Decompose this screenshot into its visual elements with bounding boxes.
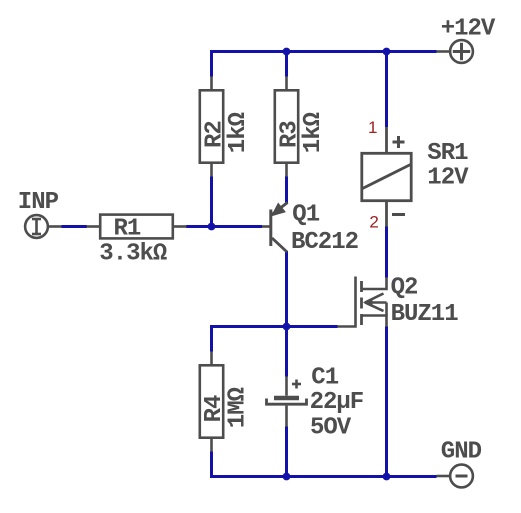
transistor Q1: [262, 203, 288, 253]
relay minus mark: [392, 213, 405, 216]
wire Q2 source down: [385, 327, 388, 477]
ground terminal GND: [437, 465, 473, 488]
svg-text:Q1: Q1: [292, 202, 319, 229]
svg-text:1kΩ: 1kΩ: [225, 112, 252, 153]
svg-text:BUZ11: BUZ11: [391, 301, 459, 328]
svg-text:1MΩ: 1MΩ: [225, 387, 252, 428]
resistor R4: [200, 352, 223, 452]
svg-text:R1: R1: [114, 216, 141, 243]
svg-text:3.3kΩ: 3.3kΩ: [99, 241, 167, 268]
wire relay top: [385, 52, 388, 128]
resistor R1: [87, 215, 187, 239]
wire C1 top: [285, 327, 288, 377]
wire R4 top drop: [210, 325, 213, 352]
wire R3 top: [285, 52, 288, 77]
wire R1 to Q1 base: [186, 225, 262, 228]
terminal INP: [25, 215, 61, 238]
wire R2 top: [210, 50, 213, 77]
svg-text:C1: C1: [311, 364, 338, 391]
resistor R3: [275, 77, 298, 177]
wire gate rail: [212, 325, 338, 328]
wire R2 bottom: [210, 177, 213, 227]
wire relay to Q2 drain: [385, 227, 388, 278]
wire INP to R1: [62, 225, 88, 228]
junction relay top rail: [383, 48, 391, 56]
capacitor C1: [267, 377, 307, 427]
wire C1 bottom: [285, 427, 288, 477]
svg-text:INP: INP: [18, 189, 59, 216]
svg-text:1: 1: [368, 118, 377, 137]
junction Q2 source bottom rail: [383, 473, 391, 481]
svg-text:+12V: +12V: [441, 16, 496, 43]
svg-text:5OV: 5OV: [310, 414, 352, 441]
junction R1 R2 base node: [208, 223, 216, 231]
junction C1 bottom rail: [283, 473, 291, 481]
wire bottom rail: [212, 475, 437, 478]
wire R4 bottom: [210, 452, 213, 479]
capacitor plus mark: [292, 380, 301, 389]
supply terminal +12V: [437, 40, 473, 63]
junction collector gate node: [283, 323, 291, 331]
svg-text:2: 2: [369, 213, 378, 232]
wire R3 bottom to Q1 emitter: [285, 177, 288, 204]
svg-text:1kΩ: 1kΩ: [300, 112, 327, 153]
relay plus mark: [393, 136, 405, 148]
svg-text:SR1: SR1: [427, 140, 468, 167]
relay SR1: [362, 127, 411, 227]
mosfet Q2: [338, 277, 387, 327]
junction R3 top rail: [283, 48, 291, 56]
resistor R2: [200, 77, 223, 177]
svg-text:22µF: 22µF: [310, 389, 364, 416]
svg-text:12V: 12V: [427, 165, 469, 192]
wire Q1 collector down: [285, 251, 288, 327]
wire top rail: [212, 50, 437, 53]
svg-text:Q2: Q2: [391, 274, 418, 301]
svg-text:GND: GND: [441, 439, 482, 466]
svg-text:BC212: BC212: [291, 229, 358, 256]
